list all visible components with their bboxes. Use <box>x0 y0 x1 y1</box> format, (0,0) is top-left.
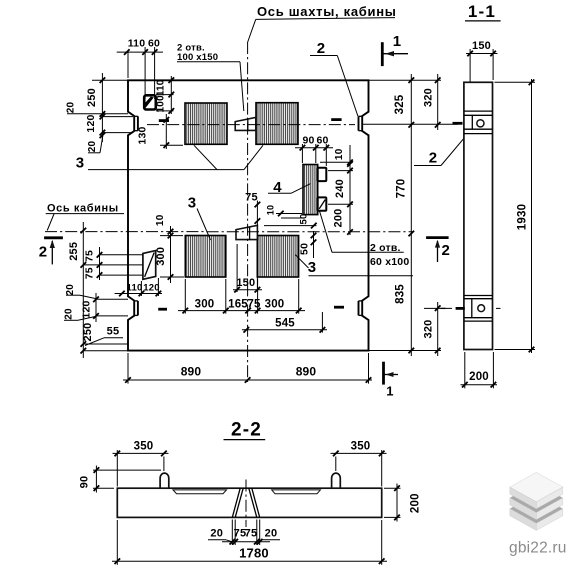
svg-text:250: 250 <box>82 323 94 342</box>
svg-text:2: 2 <box>317 40 326 57</box>
svg-text:770: 770 <box>396 179 408 199</box>
section 1-1 center marks <box>441 123 501 308</box>
svg-text:120: 120 <box>81 300 93 318</box>
dimension 350 right <box>331 441 387 487</box>
svg-text:55: 55 <box>107 326 120 338</box>
svg-text:130: 130 <box>137 126 149 144</box>
svg-text:75: 75 <box>245 192 258 204</box>
right dimension 320 bottom <box>423 302 453 356</box>
logo slab top <box>510 472 563 508</box>
left dimension chain 255/250/55 <box>68 222 143 358</box>
svg-text:60 x100: 60 x100 <box>370 256 409 268</box>
extension lines right <box>369 80 442 350</box>
keyway lip bottom-left <box>134 301 138 316</box>
svg-text:250: 250 <box>86 88 98 107</box>
svg-text:890: 890 <box>296 365 317 379</box>
section marker 2 right <box>426 238 450 262</box>
detail label 2 top with leader to notch <box>310 40 358 116</box>
left dimension chain 20/120/20 notch <box>63 284 128 322</box>
svg-text:1930: 1930 <box>517 204 529 230</box>
section marker 2 left <box>39 238 63 265</box>
dimension 110/120 bottom-left <box>115 278 162 296</box>
loop mark top-left <box>159 119 169 122</box>
label 2 holes 60x100 <box>320 211 410 268</box>
svg-text:1-1: 1-1 <box>468 2 496 21</box>
cabin horizontal axis <box>45 231 413 233</box>
svg-text:20: 20 <box>65 284 76 296</box>
svg-text:10: 10 <box>266 205 276 215</box>
svg-text:165: 165 <box>228 299 248 311</box>
svg-text:300: 300 <box>265 299 285 311</box>
svg-text:350: 350 <box>351 441 371 453</box>
svg-text:75: 75 <box>84 267 96 279</box>
lifting loop right <box>332 473 341 488</box>
svg-text:90: 90 <box>302 135 314 147</box>
svg-text:150: 150 <box>236 277 255 289</box>
svg-text:60: 60 <box>316 135 328 147</box>
loop mark bottom-right <box>334 306 344 309</box>
svg-text:200: 200 <box>469 371 489 383</box>
svg-text:2: 2 <box>429 150 438 167</box>
item label 3 right <box>295 255 413 276</box>
svg-text:545: 545 <box>275 318 295 330</box>
keyway lip top-left <box>134 116 138 130</box>
svg-text:50: 50 <box>299 214 310 225</box>
svg-text:50: 50 <box>299 243 311 255</box>
svg-text:325: 325 <box>394 94 406 114</box>
dimension 890/890 <box>123 353 372 384</box>
svg-text:20: 20 <box>210 528 223 540</box>
cabin axis label <box>46 203 124 231</box>
keyway lip bottom-right <box>359 301 363 316</box>
logo slab bottom <box>510 494 563 530</box>
dimension 75 center <box>245 192 260 227</box>
svg-text:150: 150 <box>472 40 491 52</box>
svg-text:75: 75 <box>84 250 96 262</box>
corner anchor detail 100x110 <box>144 95 156 109</box>
section 1-1 dimension 200 <box>461 352 498 388</box>
hole 60x100 upper <box>318 168 327 181</box>
svg-text:10: 10 <box>334 148 345 160</box>
svg-text:300: 300 <box>195 299 215 311</box>
dimension 130 below shaft axis <box>137 114 184 149</box>
section 2-2 title <box>224 420 266 441</box>
small dims below strip <box>264 205 317 229</box>
svg-text:320: 320 <box>423 88 435 107</box>
wall anchor detail left <box>143 251 156 280</box>
section 1-1 dimension 150 <box>466 40 498 107</box>
svg-text:300: 300 <box>155 247 167 266</box>
section marker 1 top <box>382 33 408 66</box>
item label 3 top-left <box>76 145 263 171</box>
dimension 350 left <box>113 441 169 487</box>
svg-text:1780: 1780 <box>239 546 269 561</box>
svg-text:120: 120 <box>85 114 97 132</box>
keyway lip top-right <box>359 116 363 130</box>
svg-text:75: 75 <box>245 528 258 540</box>
section 2-2 center axis <box>245 480 247 528</box>
svg-text:10: 10 <box>155 214 166 226</box>
svg-text:20: 20 <box>265 528 278 540</box>
svg-text:100: 100 <box>156 95 167 113</box>
svg-text:890: 890 <box>181 365 202 379</box>
svg-text:90: 90 <box>79 476 91 489</box>
svg-text:255: 255 <box>68 242 80 261</box>
hatched strip item 4 <box>303 165 318 215</box>
dimension 50 right of block <box>299 231 317 258</box>
svg-text:200: 200 <box>410 493 422 513</box>
hatched block item 3 (bottom-left) <box>185 236 226 278</box>
svg-text:240: 240 <box>334 179 346 198</box>
hatched block item 3 (bottom-right) <box>257 236 298 278</box>
dimension 200 slab thickness <box>384 484 422 522</box>
svg-text:200: 200 <box>333 209 345 228</box>
dimension 10/300 left of block <box>155 214 184 283</box>
svg-text:350: 350 <box>134 441 154 453</box>
section 1-1 outline <box>464 82 493 349</box>
logo text gbi22.ru <box>509 539 567 556</box>
svg-text:3: 3 <box>308 259 317 276</box>
hatched block item 3 (top-right) <box>256 103 298 145</box>
center wedge joint <box>232 488 259 517</box>
section 1-1 lower keyway band <box>464 296 493 322</box>
loop detail at cabin axis (bottom) <box>236 225 257 239</box>
top recess right <box>272 490 321 494</box>
detail label 2 with leader <box>414 129 472 166</box>
label 2 holes 100x150 <box>177 43 244 112</box>
hatched block item 3 (top-left) <box>185 103 227 144</box>
svg-text:1: 1 <box>393 33 402 50</box>
svg-text:75: 75 <box>247 299 261 311</box>
dimension 545 <box>242 312 327 333</box>
logo slab middle <box>510 483 563 519</box>
svg-text:110: 110 <box>128 38 146 50</box>
right dimension chain 325/770/835 <box>394 74 414 356</box>
shaft axis label <box>248 4 397 42</box>
svg-text:2-2: 2-2 <box>231 420 262 441</box>
section 2-2 slab outline <box>117 488 381 517</box>
svg-text:110: 110 <box>156 79 167 96</box>
dimension chain 20/75/75/20 <box>208 520 280 546</box>
svg-text:gbi22.ru: gbi22.ru <box>509 539 567 556</box>
hole 60x100 lower <box>318 197 327 210</box>
dimension 110,60 top-left <box>117 38 163 100</box>
section 1-1 upper keyway band <box>464 111 493 134</box>
item label 3 middle <box>188 195 211 241</box>
svg-text:835: 835 <box>395 284 407 304</box>
shaft horizontal axis <box>147 124 355 126</box>
dimension 90/60 above strip <box>295 135 333 167</box>
shaft axis extension right <box>362 123 458 125</box>
dimension 90 loop height <box>79 466 162 493</box>
svg-text:120: 120 <box>143 283 159 294</box>
dimension chain 300/165/75/300 <box>178 279 305 314</box>
loop detail at shaft axis (top) <box>235 117 256 130</box>
svg-text:20: 20 <box>63 308 74 320</box>
svg-text:Ось кабины: Ось кабины <box>47 203 119 215</box>
svg-text:20: 20 <box>66 102 77 114</box>
panel plan outline with edge keyway notches <box>128 80 369 350</box>
top recess left <box>173 490 227 494</box>
svg-text:Ось шахты, кабины: Ось шахты, кабины <box>257 4 397 19</box>
left top dimension chain 250/20/120/20 <box>66 73 134 153</box>
svg-text:2: 2 <box>39 244 48 261</box>
section 1-1 dimension 1930 <box>495 79 536 353</box>
svg-text:2: 2 <box>442 242 451 259</box>
loop mark top-right <box>331 118 341 121</box>
svg-text:110: 110 <box>127 283 143 294</box>
section marker 1 bottom <box>384 362 399 399</box>
lifting loop left <box>160 473 169 488</box>
dimension chain 110/100 corner detail <box>156 76 175 114</box>
loop mark bottom-left <box>158 308 167 311</box>
dimension 1780 <box>112 520 387 565</box>
item label 4 <box>268 179 311 196</box>
svg-text:1: 1 <box>386 384 393 399</box>
shaft/cabin vertical axis <box>247 42 249 382</box>
right dimension 320 top <box>423 74 441 130</box>
left dimension chain 75/75 <box>84 247 143 280</box>
section 1-1 title <box>465 2 501 21</box>
svg-text:3: 3 <box>76 155 85 172</box>
svg-text:60: 60 <box>148 38 160 50</box>
svg-text:3: 3 <box>188 195 197 212</box>
dimension chain 10/240/200 right of strip <box>320 145 353 235</box>
svg-text:20: 20 <box>87 141 98 153</box>
svg-text:320: 320 <box>423 320 435 339</box>
dimension 150 <box>233 244 262 293</box>
